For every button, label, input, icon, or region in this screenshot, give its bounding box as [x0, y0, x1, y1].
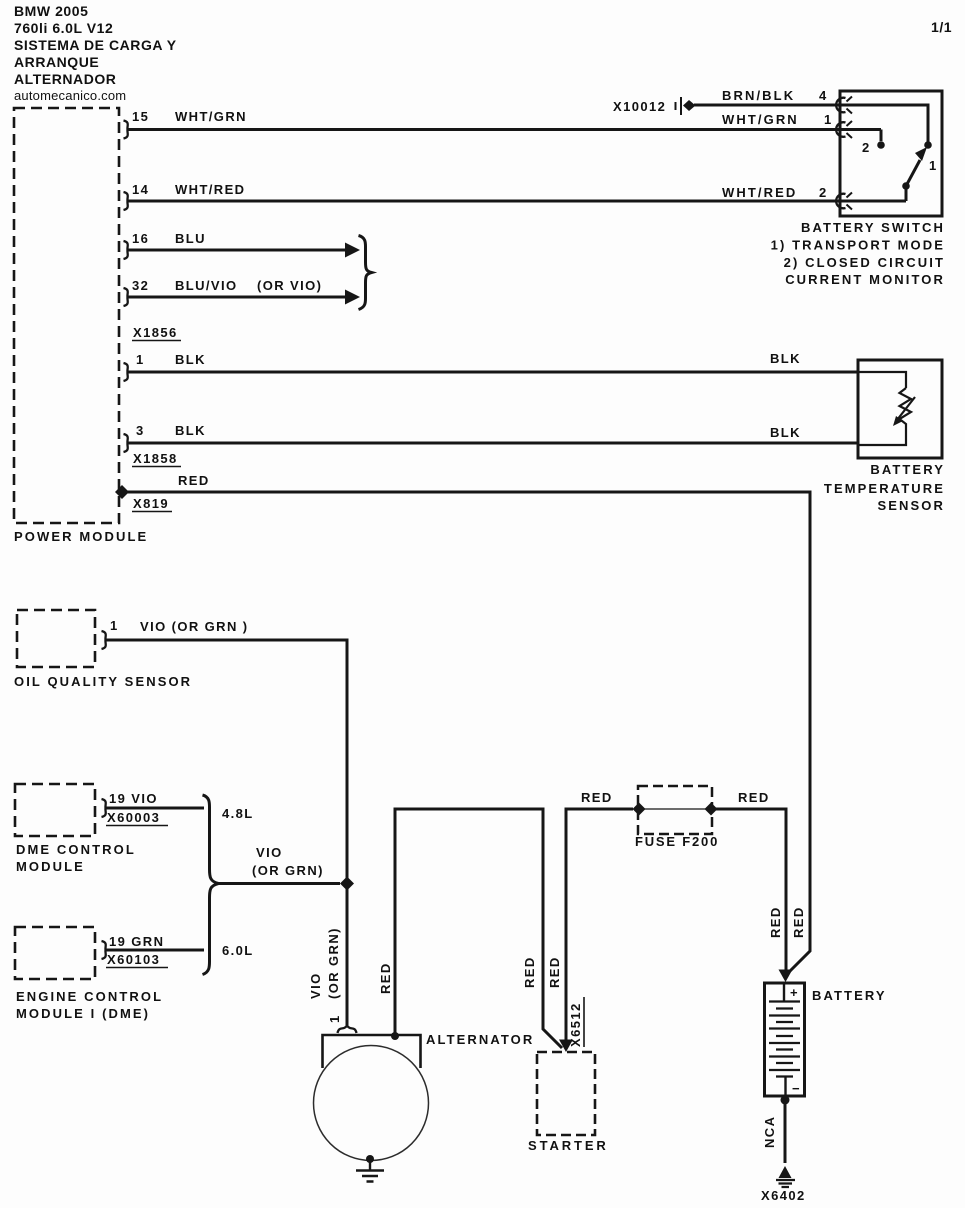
connector label X1858 — [133, 451, 178, 466]
connector bump switch pin 1 — [836, 122, 845, 137]
svg-text:BLK: BLK — [770, 425, 801, 440]
connector bump switch pin 4 — [836, 98, 845, 113]
svg-text:X10012: X10012 — [613, 99, 666, 114]
svg-text:−: − — [792, 1081, 801, 1096]
wire BRN/BLK to switch pin 4 — [694, 105, 928, 145]
svg-text:SISTEMA DE CARGA Y: SISTEMA DE CARGA Y — [14, 37, 177, 53]
alternator ground dot — [366, 1155, 374, 1163]
svg-text:RED: RED — [522, 956, 537, 988]
temp sensor internal wires — [858, 372, 906, 445]
svg-text:ENGINE CONTROL: ENGINE CONTROL — [16, 989, 163, 1004]
svg-text:1) TRANSPORT MODE: 1) TRANSPORT MODE — [771, 238, 945, 253]
connector bump pin 1 — [124, 363, 128, 381]
switch internal wire pin1 to contact 2 — [880, 130, 883, 142]
temp sensor caption — [824, 462, 945, 513]
connector label X819 — [133, 496, 169, 511]
alternator G1 housing cap — [323, 1035, 421, 1068]
connector bump ECM pin 19 — [102, 941, 106, 959]
wire BLK pin3 to battery temp sensor — [128, 442, 858, 445]
svg-text:RED: RED — [547, 956, 562, 988]
svg-text:X1858: X1858 — [133, 451, 178, 466]
fuse terminal diamond right — [705, 803, 718, 816]
switch arm pivot dot — [902, 182, 910, 190]
brace joining DME/ECM wires — [203, 795, 219, 975]
svg-text:BLK: BLK — [770, 351, 801, 366]
svg-text:RED: RED — [581, 790, 613, 805]
switch arm arrowhead — [915, 147, 927, 161]
wire RED fuse to battery — [711, 809, 786, 971]
fuse element thin line — [641, 808, 709, 810]
svg-text:RED: RED — [178, 473, 210, 488]
svg-text:FUSE F200: FUSE F200 — [635, 834, 719, 849]
svg-text:15: 15 — [132, 109, 149, 124]
wire VIO (OR GRN) from oil sensor down to junction — [106, 640, 347, 1026]
power module P1 dashed box — [14, 108, 119, 523]
svg-text:16: 16 — [132, 231, 149, 246]
connector bump oil pin 1 — [102, 631, 106, 649]
wire NCA battery negative to X6402 — [784, 1100, 787, 1163]
svg-text:2: 2 — [862, 140, 871, 155]
svg-text:VIO: VIO — [256, 845, 283, 860]
junction diamond X819 — [115, 485, 129, 499]
svg-text:1: 1 — [110, 618, 119, 633]
svg-text:ALTERNATOR: ALTERNATOR — [426, 1032, 534, 1047]
svg-text:X6512: X6512 — [568, 1002, 583, 1047]
svg-text:BLK: BLK — [175, 352, 206, 367]
thermistor arrow — [897, 397, 915, 420]
wire label VIO (OR GRN) horizontal — [252, 845, 324, 878]
connector label X1856 — [133, 325, 178, 340]
svg-text:(OR GRN): (OR GRN) — [252, 863, 324, 878]
arrowhead wire 16 — [345, 243, 360, 258]
svg-text:CURRENT MONITOR: CURRENT MONITOR — [785, 272, 945, 287]
arrowhead wire 32 — [345, 290, 360, 305]
svg-text:(OR GRN): (OR GRN) — [326, 927, 341, 999]
svg-text:1/1: 1/1 — [931, 19, 952, 35]
wire BLK pin1 to battery temp sensor — [128, 371, 858, 374]
svg-text:BATTERY: BATTERY — [812, 988, 887, 1003]
svg-text:DME CONTROL: DME CONTROL — [16, 842, 136, 857]
engine control module dashed box — [15, 927, 95, 979]
svg-text:BMW 2005: BMW 2005 — [14, 3, 88, 19]
connector bump pin 14 — [124, 192, 128, 210]
svg-text:X6402: X6402 — [761, 1188, 806, 1203]
connector bump pin 32 — [124, 288, 128, 306]
svg-text:OIL QUALITY SENSOR: OIL QUALITY SENSOR — [14, 674, 192, 689]
svg-text:32: 32 — [132, 278, 149, 293]
wire from brace to VIO junction — [219, 882, 341, 885]
svg-text:3: 3 — [136, 423, 145, 438]
wire GRN ECM pin19 to brace — [106, 949, 204, 952]
svg-text:STARTER: STARTER — [528, 1138, 609, 1153]
connector bump switch pin 2 — [836, 194, 845, 209]
starter dashed box — [537, 1052, 595, 1135]
svg-text:NCA: NCA — [762, 1116, 777, 1148]
battery minus terminal stub — [784, 1077, 786, 1095]
arrowhead into starter — [559, 1040, 573, 1053]
svg-text:RED: RED — [738, 790, 770, 805]
connector bump pin 16 — [124, 241, 128, 259]
fuse F200 dashed box — [638, 786, 712, 834]
connector label X60003 — [107, 810, 160, 825]
connector bump pin 3 — [124, 434, 128, 452]
wire RED fuse feed down to starter — [566, 809, 633, 1045]
alternator body circle — [314, 1046, 429, 1161]
ground X6402 triangle — [779, 1166, 792, 1178]
contact 1 dot — [924, 141, 932, 149]
DME caption — [16, 842, 136, 874]
junction diamond on VIO wire — [340, 877, 354, 891]
svg-text:BLU: BLU — [175, 231, 206, 246]
svg-text:MODULE: MODULE — [16, 859, 85, 874]
svg-text:4.8L: 4.8L — [222, 806, 254, 821]
wire WHT/RED pin14 to battery switch pin2 — [128, 200, 906, 203]
svg-text:WHT/GRN: WHT/GRN — [175, 109, 247, 124]
svg-text:1: 1 — [929, 158, 938, 173]
svg-text:BATTERY SWITCH: BATTERY SWITCH — [801, 220, 945, 235]
battery switch caption — [771, 220, 945, 287]
svg-text:X60103: X60103 — [107, 952, 160, 967]
X6512 underline — [583, 997, 585, 1047]
svg-text:BLU/VIO: BLU/VIO — [175, 278, 238, 293]
connector bump alternator pin 1 — [338, 1026, 357, 1033]
svg-text:6.0L: 6.0L — [222, 943, 254, 958]
arrowhead into battery positive — [779, 970, 793, 983]
svg-text:VIO (OR GRN ): VIO (OR GRN ) — [140, 619, 248, 634]
fuse terminal diamond left — [633, 803, 646, 816]
wire WHT/GRN pin15 to battery switch pin1 — [128, 128, 881, 131]
svg-text:1: 1 — [136, 352, 145, 367]
svg-text:2) CLOSED CIRCUIT: 2) CLOSED CIRCUIT — [784, 255, 945, 270]
svg-text:19 VIO: 19 VIO — [109, 791, 158, 806]
thermistor RT zigzag — [900, 388, 912, 430]
svg-text:POWER MODULE: POWER MODULE — [14, 529, 148, 544]
svg-text:760li 6.0L V12: 760li 6.0L V12 — [14, 20, 113, 36]
ground X6402 bars — [776, 1180, 795, 1187]
X10012 connector ticks and pointer — [676, 97, 682, 115]
battery temperature sensor box — [858, 360, 942, 458]
svg-text:19 GRN: 19 GRN — [109, 934, 164, 949]
svg-text:4: 4 — [819, 88, 828, 103]
svg-text:VIO: VIO — [308, 972, 323, 999]
svg-text:1: 1 — [327, 1014, 342, 1023]
svg-text:WHT/GRN: WHT/GRN — [722, 112, 799, 127]
battery switch S1 box — [840, 91, 942, 216]
svg-text:RED: RED — [378, 962, 393, 994]
svg-text:X1856: X1856 — [133, 325, 178, 340]
svg-text:RED: RED — [768, 906, 783, 938]
svg-text:WHT/RED: WHT/RED — [175, 182, 245, 197]
ECM caption — [16, 989, 163, 1021]
svg-text:RED: RED — [791, 906, 806, 938]
DME control module dashed box — [15, 784, 95, 836]
svg-text:2: 2 — [819, 185, 828, 200]
svg-text:TEMPERATURE: TEMPERATURE — [824, 481, 945, 496]
svg-text:(OR VIO): (OR VIO) — [257, 278, 322, 293]
alternator ground stem — [369, 1159, 371, 1170]
svg-text:BLK: BLK — [175, 423, 206, 438]
svg-text:WHT/RED: WHT/RED — [722, 185, 797, 200]
svg-text:1: 1 — [824, 112, 833, 127]
switch internal wire pin2 up — [905, 186, 908, 201]
svg-text:X60003: X60003 — [107, 810, 160, 825]
oil quality sensor dashed box — [17, 610, 95, 667]
title text block — [14, 3, 952, 103]
wire RED from X819 to battery positive — [122, 492, 810, 975]
battery plus terminal stub — [783, 984, 785, 1001]
alternator ground bars — [356, 1171, 384, 1182]
svg-text:SENSOR: SENSOR — [877, 498, 945, 513]
alternator B+ terminal dot — [391, 1032, 399, 1040]
switch arm toward contact 1 — [906, 160, 920, 186]
battery negative junction dot — [781, 1096, 790, 1105]
svg-text:MODULE I (DME): MODULE I (DME) — [16, 1006, 150, 1021]
connector bump DME pin 19 — [102, 799, 106, 817]
wire RED alternator B+ riser — [395, 809, 562, 1048]
svg-text:X819: X819 — [133, 496, 169, 511]
connector label X60103 — [107, 952, 160, 967]
svg-text:ALTERNADOR: ALTERNADOR — [14, 71, 116, 87]
svg-text:automecanico.com: automecanico.com — [14, 88, 126, 103]
wire BLU pin16 — [128, 249, 348, 252]
svg-text:14: 14 — [132, 182, 149, 197]
svg-text:+: + — [790, 985, 799, 1000]
connector bump pin 15 — [124, 121, 128, 139]
wire BLU/VIO pin32 — [128, 296, 348, 299]
svg-text:ARRANQUE: ARRANQUE — [14, 54, 99, 70]
contact 2 dot — [877, 141, 885, 149]
svg-text:BRN/BLK: BRN/BLK — [722, 88, 795, 103]
battery G2 box — [765, 983, 805, 1096]
svg-text:BATTERY: BATTERY — [870, 462, 945, 477]
battery cell plates — [769, 1002, 800, 1077]
brace joining wires 16 and 32 — [359, 236, 372, 310]
wire VIO DME pin19 to brace — [106, 807, 204, 810]
